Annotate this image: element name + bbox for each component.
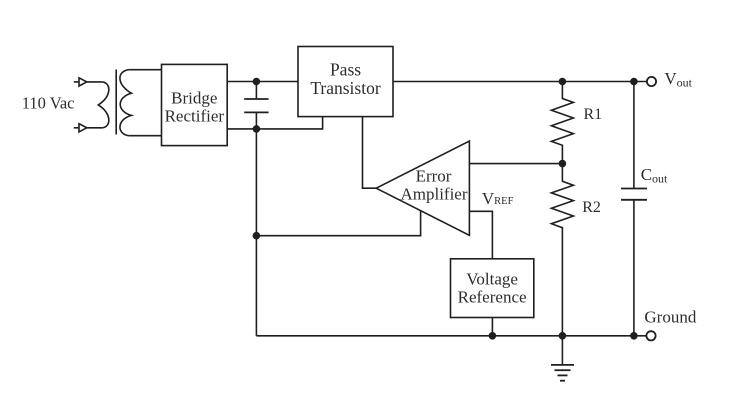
wire bridge rectifier output top <box>227 81 298 83</box>
svg-text:Cout: Cout <box>641 165 668 185</box>
voltage reference block <box>451 259 534 318</box>
svg-text:Bridge: Bridge <box>171 89 217 108</box>
wire secondary top to bridge rectifier <box>129 69 161 71</box>
wire VREF input <box>469 211 492 258</box>
svg-text:Ground: Ground <box>644 307 696 326</box>
svg-text:Transistor: Transistor <box>310 78 381 98</box>
wire feedback node to error amplifier input <box>469 163 562 165</box>
junction dot negative rail <box>253 232 261 240</box>
junction dot feedback node <box>559 160 567 168</box>
terminal Vout <box>647 77 656 86</box>
svg-text:Pass: Pass <box>330 59 361 79</box>
svg-text:Rectifier: Rectifier <box>165 107 225 126</box>
svg-text:Error: Error <box>416 167 452 186</box>
junction dot Cout top tap <box>630 78 638 86</box>
wire pass transistor output to Vout <box>393 81 647 83</box>
output capacitor Cout <box>621 82 647 336</box>
wire bridge rectifier output bottom <box>227 117 322 129</box>
wire error amplifier output to pass transistor <box>363 117 377 189</box>
ground symbol <box>551 336 574 381</box>
junction dot filter cap bottom <box>253 125 261 133</box>
svg-text:R2: R2 <box>582 199 601 216</box>
transformer T1 secondary winding <box>120 70 131 136</box>
svg-text:Vout: Vout <box>664 69 692 89</box>
bridge rectifier block <box>162 64 228 145</box>
junction dot voltage reference ground <box>489 332 497 340</box>
svg-text:110 Vac: 110 Vac <box>22 94 75 113</box>
transformer T1 core <box>115 70 117 135</box>
wire bottom terminal to primary <box>87 127 103 129</box>
wire secondary bottom to bridge rectifier <box>129 135 161 137</box>
junction dot filter cap top <box>253 78 261 86</box>
AC input terminal top <box>74 78 87 86</box>
pass transistor block <box>298 47 393 117</box>
terminal Ground <box>646 331 655 340</box>
ground rail wire <box>256 335 646 337</box>
resistor R2 <box>551 164 573 336</box>
svg-text:R1: R1 <box>584 106 603 123</box>
AC input terminal bottom <box>74 124 87 132</box>
resistor R1 <box>551 82 573 164</box>
filter capacitor C1 <box>244 82 268 129</box>
svg-text:Voltage: Voltage <box>466 270 518 289</box>
junction dot R2 ground <box>559 332 567 340</box>
wire voltage reference to ground rail <box>491 318 493 336</box>
error amplifier U1 <box>376 141 469 235</box>
wire negative rail to ground rail <box>255 236 257 336</box>
svg-text:Reference: Reference <box>458 287 527 306</box>
junction dot Cout ground <box>630 332 638 340</box>
junction dot R1 top tap <box>559 78 567 86</box>
svg-text:VREF: VREF <box>482 189 514 208</box>
svg-text:Amplifier: Amplifier <box>400 185 467 204</box>
wire negative rail down from filter cap <box>255 129 257 236</box>
transformer T1 primary winding <box>98 82 109 128</box>
wire top terminal to primary <box>87 81 103 83</box>
wire to error amplifier lower input <box>256 210 420 236</box>
